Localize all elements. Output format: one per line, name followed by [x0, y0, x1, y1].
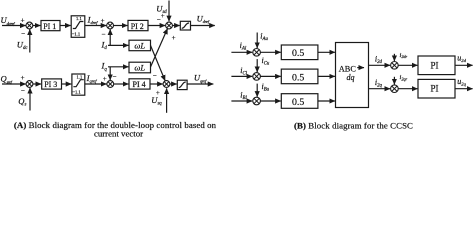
- svg-text:dq: dq: [347, 73, 355, 82]
- svg-text:+: +: [103, 75, 107, 83]
- svg-text:+: +: [161, 12, 165, 20]
- svg-text:ωL: ωL: [134, 63, 145, 73]
- svg-text:0.5: 0.5: [292, 97, 304, 108]
- svg-text:−: −: [102, 31, 106, 39]
- svg-text:PI 2: PI 2: [131, 22, 144, 31]
- svg-text:1.1: 1.1: [76, 16, 82, 21]
- svg-text:0.5: 0.5: [292, 72, 304, 83]
- svg-text:−: −: [157, 16, 161, 24]
- svg-text:PI 1: PI 1: [43, 22, 56, 31]
- svg-text:PI: PI: [431, 60, 439, 70]
- svg-text:−: −: [153, 72, 157, 80]
- svg-text:PI: PI: [431, 84, 439, 94]
- svg-text:−1.1: −1.1: [72, 90, 81, 95]
- svg-text:+: +: [21, 16, 25, 24]
- svg-text:PI 4: PI 4: [133, 80, 146, 89]
- svg-text:+: +: [21, 74, 25, 82]
- svg-text:+: +: [101, 17, 105, 25]
- svg-text:−: −: [21, 30, 25, 38]
- svg-text:−: −: [113, 73, 117, 81]
- svg-text:current vector: current vector: [94, 129, 143, 138]
- svg-text:−: −: [21, 87, 25, 95]
- svg-text:1.1: 1.1: [77, 74, 83, 79]
- svg-text:PI 3: PI 3: [44, 80, 57, 89]
- svg-text:+: +: [172, 34, 176, 42]
- svg-text:(B) Block diagram for the CCSC: (B) Block diagram for the CCSC: [294, 120, 413, 130]
- svg-text:−1.1: −1.1: [72, 31, 81, 36]
- svg-text:ωL: ωL: [134, 41, 145, 51]
- svg-text:0.5: 0.5: [292, 48, 304, 59]
